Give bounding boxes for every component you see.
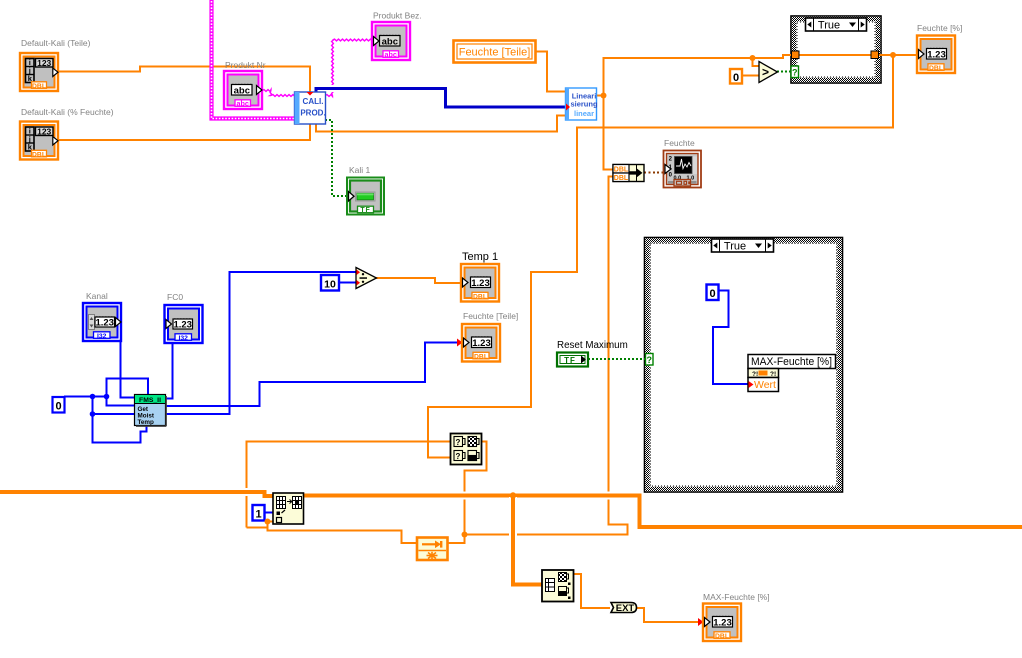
- svg-text:123: 123: [37, 58, 51, 68]
- thick array wire from left edge into Replace Array Subset: [0, 492, 274, 496]
- svg-text:abc: abc: [237, 99, 249, 108]
- wire constant 0 to greater-than bottom input: [742, 75, 759, 77]
- wire Bundle cluster output to Feuchte chart (brown dotted): [644, 172, 665, 174]
- svg-text:abc: abc: [385, 50, 397, 59]
- svg-text:DBL: DBL: [474, 354, 488, 361]
- svg-text:1.23: 1.23: [471, 278, 490, 289]
- svg-text:Produkt Bez.: Produkt Bez.: [373, 11, 422, 21]
- svg-text:?: ?: [792, 68, 798, 78]
- svg-text:Feuchte [Teile]: Feuchte [Teile]: [463, 311, 518, 321]
- wire string array trunk (magenta chain): [212, 0, 296, 119]
- svg-text:?: ?: [456, 438, 461, 447]
- coercion arrow on CALI PROD top input: [307, 92, 314, 96]
- wire CALI PROD bottom output to Linearisierung lower input: [316, 116, 566, 132]
- function Max &amp; Min: [451, 434, 482, 465]
- numeric indicator MAX-Feuchte [%] (DBL): [698, 604, 741, 642]
- svg-text:Reset Maximum: Reset Maximum: [557, 340, 628, 351]
- svg-text:1.23: 1.23: [95, 318, 114, 329]
- wire local variable Feuchte [Teile] to Linearisierung top input: [535, 52, 566, 92]
- wire Reset Maximum to big case tunnel (green dotted): [588, 358, 646, 360]
- thick array branch down to Array Max+Min: [513, 497, 542, 585]
- svg-text:Default-Kali (% Feuchte): Default-Kali (% Feuchte): [21, 107, 114, 117]
- wire constant 0 fan-out to FMS_II pins: [64, 396, 107, 398]
- svg-text:EXT: EXT: [616, 603, 635, 614]
- constant 0 (DBL orange): [730, 69, 742, 84]
- wire constant 0 to property node Wert (inside big case): [713, 291, 748, 385]
- svg-text:?: ?: [456, 452, 461, 461]
- svg-text:DBL: DBL: [32, 152, 46, 159]
- conversion node EXT: [611, 603, 637, 615]
- wire FC0 to FMS_II right side: [165, 343, 173, 399]
- svg-text:Feuchte: Feuchte: [664, 138, 695, 148]
- svg-text:DBL: DBL: [715, 633, 729, 640]
- svg-text:I32: I32: [97, 333, 107, 340]
- svg-text:I32: I32: [178, 335, 188, 342]
- numeric indicator Feuchte [%] (DBL): [917, 36, 955, 74]
- divide node: [356, 268, 377, 289]
- svg-text:1.23: 1.23: [173, 320, 192, 331]
- svg-text:0: 0: [733, 72, 739, 84]
- boolean control Reset Maximum: [557, 353, 588, 367]
- svg-text:Temp 1: Temp 1: [462, 251, 498, 263]
- wire through small case interior: [795, 54, 875, 56]
- function Array Max &amp; Min: [542, 570, 574, 602]
- svg-text:Feuchte [Teile]: Feuchte [Teile]: [459, 47, 531, 59]
- property node MAX-Feuchte [%]: [748, 355, 836, 392]
- constant 0 inside big case (I32): [707, 285, 719, 301]
- svg-text:FC0: FC0: [167, 292, 183, 302]
- svg-text:abc: abc: [382, 36, 398, 47]
- wire Feuchte [%] branch down-left to Max+Min lower input: [428, 55, 893, 458]
- wire Default-Kali (Teile) to CALI PROD top: [57, 67, 310, 94]
- svg-text:sierung: sierung: [570, 100, 598, 109]
- wire FMS_II output to Feuchte [Teile] indicator: [165, 343, 461, 407]
- svg-text:TF: TF: [360, 207, 370, 214]
- junction dot after small case: [890, 52, 896, 58]
- tunnel case selector ? (small case): [791, 66, 799, 78]
- svg-text:DBL: DBL: [32, 83, 46, 90]
- numeric indicator Feuchte [Teile] (DBL): [457, 324, 500, 362]
- wire CALI PROD string output to Produkt Bez (magenta wavy): [325, 39, 373, 96]
- wire CALI PROD boolean output to Kali 1 (green dotted): [325, 120, 348, 196]
- svg-text:0: 0: [709, 288, 715, 300]
- svg-text:Feuchte [%]: Feuchte [%]: [917, 23, 962, 33]
- waveform chart Feuchte: [664, 151, 702, 188]
- thick blue wire CALI PROD output to Linearisierung: [316, 89, 566, 108]
- svg-text:10: 10: [324, 279, 336, 291]
- wire Default-Kali (% Feuchte) to CALI PROD bottom: [57, 124, 310, 140]
- junction dots on I32 constant net: [90, 394, 96, 400]
- wire Linearisierung output up and right to small case left tunnel: [596, 55, 792, 96]
- boolean indicator Kali 1: [347, 178, 384, 215]
- wire previous-max net: junction up to Max+Min top input: [247, 442, 453, 528]
- wire EXT to MAX-Feuchte [%] indicator: [636, 608, 705, 622]
- junction dot at Linearisierung output: [601, 93, 607, 99]
- string indicator Produkt Bez.: [372, 22, 410, 60]
- wire Produkt Nr to CALI PROD (magenta wavy): [262, 90, 295, 97]
- constant 10 (I32): [321, 275, 339, 291]
- bundle node: [613, 165, 644, 183]
- subVI Linearisierung: [566, 88, 598, 120]
- wire divide output to Temp 1: [376, 278, 462, 283]
- constant 0 (I32): [53, 397, 65, 413]
- svg-text:Wert: Wert: [754, 379, 776, 391]
- svg-text:123: 123: [37, 127, 51, 137]
- junction dot on thick array wire: [510, 492, 516, 498]
- svg-text:FMS_II: FMS_II: [139, 397, 161, 404]
- svg-text:Temp: Temp: [138, 419, 154, 426]
- constant 1 (I32): [253, 505, 265, 521]
- svg-text:True: True: [724, 241, 746, 253]
- tunnel orange right (small case): [871, 51, 879, 59]
- wire greater-than output to small case tunnel (green dotted): [777, 71, 792, 73]
- svg-text:?: ?: [647, 355, 653, 365]
- greater-than node: [759, 62, 778, 83]
- wire branch down to greater-than top input: [753, 58, 760, 66]
- junction dot at Replace Array Subset input: [265, 519, 271, 525]
- svg-text:1.23: 1.23: [472, 338, 491, 349]
- case selector label True (top-right case): [806, 18, 867, 32]
- wire max value net: Max+Min output down to feedback node and up to Bundle lower input: [448, 442, 487, 544]
- tunnel case selector ? (big case): [646, 354, 654, 366]
- subVI CALI PROD: [295, 92, 326, 124]
- case structure frame top-right: [791, 16, 881, 83]
- numeric indicator FC0 (I32): [165, 305, 203, 343]
- numeric control Kanal (I32): [83, 303, 121, 341]
- svg-text:DBL: DBL: [614, 175, 629, 182]
- coercion arrow on Linearisierung input: [566, 104, 570, 111]
- junction dot at feedback output: [462, 532, 468, 538]
- svg-text:DBL: DBL: [473, 294, 487, 301]
- numeric indicator Temp 1 (DBL): [461, 264, 499, 302]
- thick array wire Replace output to right edge: [303, 496, 1022, 528]
- wire constant 1 to Replace Array Subset: [264, 512, 273, 514]
- svg-text:1.23: 1.23: [713, 617, 732, 628]
- svg-text:DBL: DBL: [929, 65, 943, 72]
- svg-text:0: 0: [55, 401, 61, 413]
- svg-text:MAX-Feuchte [%]: MAX-Feuchte [%]: [751, 356, 832, 368]
- wire Linearisierung output down to Bundle top input: [604, 96, 615, 170]
- local variable Feuchte [Teile]: [454, 41, 536, 63]
- string control Produkt Nr: [224, 71, 262, 109]
- subVI FMS_II Get Moist Temp: [135, 395, 167, 427]
- svg-text:1: 1: [255, 509, 261, 521]
- svg-text:Kanal: Kanal: [86, 291, 108, 301]
- svg-text:linear: linear: [574, 109, 594, 118]
- junction dot before greater-than: [750, 55, 756, 61]
- case structure frame right (big): [645, 238, 843, 493]
- wire small case right tunnel to Feuchte [%] indicator: [875, 54, 917, 56]
- svg-text:TF: TF: [564, 356, 576, 365]
- feedback node: [417, 538, 448, 561]
- wire Array Max+Min output to EXT: [572, 574, 610, 608]
- array control Default-Kali (Teile): [20, 53, 58, 91]
- svg-text:Produkt Nr: Produkt Nr: [225, 60, 266, 70]
- wire FMS_II output to divide node: [165, 272, 356, 414]
- tunnel orange left (small case): [792, 51, 800, 59]
- wire junction to feedback node input: [268, 522, 418, 544]
- case selector label True (big case): [712, 239, 774, 253]
- wire Kanal to FMS_II: [121, 341, 136, 398]
- wire constant 10 to divide node: [339, 282, 356, 284]
- svg-text:abc: abc: [234, 85, 250, 96]
- svg-text:PROD.: PROD.: [300, 109, 325, 118]
- array control Default-Kali (% Feuchte): [20, 122, 58, 160]
- svg-text:>: >: [762, 65, 769, 79]
- svg-text:Default-Kali (Teile): Default-Kali (Teile): [21, 38, 91, 48]
- svg-text:CALI.: CALI.: [303, 97, 324, 106]
- function Replace Array Subset: [273, 493, 304, 524]
- svg-text:1.23: 1.23: [927, 49, 946, 60]
- svg-text:True: True: [818, 20, 840, 32]
- svg-text:Kali 1: Kali 1: [349, 165, 371, 175]
- svg-text:MAX-Feuchte [%]: MAX-Feuchte [%]: [703, 592, 770, 602]
